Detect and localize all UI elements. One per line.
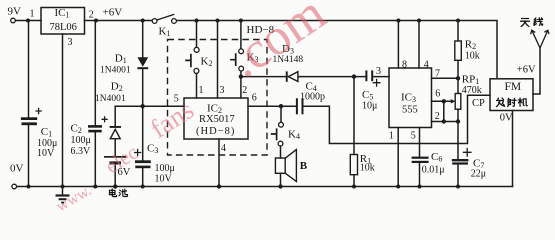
svg-text:RX5017: RX5017 <box>199 114 235 125</box>
terminal 0V input <box>12 184 17 189</box>
capacitor C2 polarity plus <box>102 116 108 122</box>
wire IC2 pin4 to 0V rail <box>218 139 220 187</box>
node dot C1/rail <box>26 19 30 23</box>
svg-text:100μ: 100μ <box>37 138 57 149</box>
wire D1 to node J1 <box>142 70 144 107</box>
svg-text:D1: D1 <box>115 53 127 66</box>
wire node J1 stub left and down to D2 <box>115 106 143 126</box>
wire rail to R2 <box>457 21 459 42</box>
wire antenna mast to FM box <box>533 48 540 94</box>
node dot C2/0V rail <box>93 185 97 189</box>
ground symbol <box>56 194 70 203</box>
svg-text:.com: .com <box>219 0 336 89</box>
wire D3 to C5 <box>298 76 366 78</box>
svg-text:1: 1 <box>389 130 394 141</box>
node dot pin7/R2/RP1 <box>456 76 460 80</box>
svg-text:9V: 9V <box>8 6 22 18</box>
node dot D3/R1/C5 <box>352 74 356 78</box>
svg-text:0V: 0V <box>10 163 24 175</box>
diode D1 1N4001 (filled, pointing down) <box>137 57 148 69</box>
wire IC3 pin2 tie to pin6 and RP1 bottom <box>432 101 459 121</box>
svg-text:1: 1 <box>30 9 35 20</box>
capacitor C7 22u plates <box>452 159 469 165</box>
wire C5 to IC3 pin3 <box>374 76 390 78</box>
svg-text:10μ: 10μ <box>362 101 377 112</box>
wire K3 node to D3 <box>241 76 287 78</box>
switch K1 <box>152 14 176 23</box>
wire D2 to battery <box>114 139 116 156</box>
svg-text:0.01μ: 0.01μ <box>422 165 445 176</box>
node dot IC3 pin8/rail <box>396 19 400 23</box>
wire C1 branch upper <box>28 21 30 118</box>
svg-text:3: 3 <box>376 66 381 77</box>
node dot speaker/0V rail <box>278 184 282 188</box>
wire +6V rail from K1 to right corner, down to FM box <box>176 21 497 79</box>
svg-text:10k: 10k <box>360 163 375 174</box>
dashed module enclosure HD-8 <box>168 40 268 156</box>
wire rail to K3 <box>240 21 242 49</box>
node dot RP1/C7 <box>456 119 460 123</box>
wire RP1 to C7 <box>457 109 459 159</box>
wire IC3 pin7 to R2/RP1 node <box>432 77 459 79</box>
svg-text:R2: R2 <box>465 39 476 52</box>
svg-text:1N4001: 1N4001 <box>95 94 126 104</box>
node dot K3/D3 <box>239 74 243 78</box>
antenna symbol <box>531 30 549 48</box>
capacitor C5 polarity plus <box>373 79 381 87</box>
wire K4 to speaker <box>280 146 282 158</box>
svg-text:(HD−8): (HD−8) <box>196 126 235 137</box>
capacitor C1 polarity plus <box>35 108 41 114</box>
svg-text:1: 1 <box>199 85 204 96</box>
wire IC2 pin5 from node J1 <box>143 105 184 107</box>
svg-text:2: 2 <box>435 111 440 122</box>
wire C1 branch lower <box>28 125 30 186</box>
timer IC3 555 box <box>389 68 432 128</box>
wire C2 branch upper <box>94 21 96 126</box>
capacitor C3 polarity plus <box>134 149 141 156</box>
node dot C3/0V rail <box>141 185 145 189</box>
node dot C1/0V rail <box>27 185 31 189</box>
svg-text:C2: C2 <box>71 123 82 136</box>
wire C2 branch lower <box>94 132 96 187</box>
wire K2 to IC2 pin1 <box>196 73 198 98</box>
svg-text:7: 7 <box>435 69 440 80</box>
svg-text:fans: fans <box>145 94 199 144</box>
svg-text:+6V: +6V <box>103 7 123 19</box>
wire C7 to 0V rail <box>457 164 459 186</box>
node J1 D1/D2/C3/pin5 <box>141 104 145 108</box>
svg-text:K2: K2 <box>201 56 213 69</box>
capacitor C3 plates <box>135 160 151 168</box>
capacitor C6 0.01u plates <box>412 157 429 163</box>
svg-text:IC1: IC1 <box>55 7 70 20</box>
wire node to K4 <box>280 106 282 122</box>
wire rail to K2 <box>196 21 198 48</box>
svg-text:C6: C6 <box>431 151 442 164</box>
node dot battery/0V rail <box>113 184 117 188</box>
resistor R2 10k <box>455 41 462 60</box>
potentiometer RP1 wiper arrow <box>451 99 456 103</box>
svg-text:CP: CP <box>472 98 485 109</box>
node dot R2/rail <box>456 19 460 23</box>
svg-text:K4: K4 <box>288 129 300 142</box>
svg-text:6: 6 <box>435 89 440 100</box>
diode D3 1N4148 (outline, pointing left) <box>286 71 298 81</box>
pushbutton K3 <box>230 49 243 71</box>
capacitor C1 plates <box>21 117 37 125</box>
node dot C7/0V rail <box>456 185 460 189</box>
pushbutton K4 <box>271 122 284 146</box>
svg-text:3: 3 <box>220 85 225 96</box>
IC2 RX5017 box <box>184 98 248 139</box>
node dot K2/rail <box>195 19 199 23</box>
svg-text:K1: K1 <box>159 26 171 39</box>
wire R2 to RP1 <box>457 60 459 93</box>
svg-text:8: 8 <box>402 59 407 70</box>
svg-text:10V: 10V <box>37 148 55 159</box>
FM transmitter box <box>490 79 533 111</box>
battery 6V plates <box>104 156 126 165</box>
svg-text:C3: C3 <box>147 143 158 156</box>
svg-text:10k: 10k <box>465 50 480 61</box>
speaker B <box>275 150 296 182</box>
potentiometer RP1 470k body <box>455 94 461 110</box>
wire K3 to IC2 pin2 <box>240 71 242 98</box>
svg-text:555: 555 <box>402 105 418 116</box>
svg-text:3: 3 <box>68 37 73 48</box>
svg-text:4: 4 <box>221 143 226 154</box>
wire R1 to 0V rail <box>353 175 355 187</box>
label FM transmitter chinese <box>496 98 527 107</box>
svg-text:elec: elec <box>101 140 142 178</box>
svg-text:100μ: 100μ <box>71 135 91 146</box>
svg-text:10V: 10V <box>155 173 173 184</box>
node dot K3/rail <box>239 19 243 23</box>
wire C3 branch upper <box>142 106 144 160</box>
node dot pin6/wiper tie <box>442 99 446 103</box>
capacitor C5 10u plates <box>365 70 373 81</box>
node dot D1/rail <box>141 19 145 23</box>
wire +6V rail from IC1 pin2 to K1 <box>85 20 153 22</box>
svg-text:5: 5 <box>411 130 416 141</box>
node dot IC3 pin4/rail <box>417 19 421 23</box>
svg-text:0V: 0V <box>500 112 513 123</box>
svg-text:2: 2 <box>242 85 247 96</box>
node dot IC3 pin1/0V rail <box>396 185 400 189</box>
node dot pin3/rail <box>216 19 220 23</box>
pushbutton K2 <box>185 47 199 73</box>
capacitor C7 polarity plus <box>463 148 472 157</box>
label antenna chinese <box>521 18 543 27</box>
wire D1 branch upper <box>142 21 144 58</box>
wire C6 to 0V rail <box>419 163 421 187</box>
capacitor C4 1000p plates <box>296 98 304 114</box>
node dot C2/rail <box>94 19 98 23</box>
node dot C6/0V rail <box>418 185 422 189</box>
node dot pin6/K4/C4 <box>279 104 283 108</box>
svg-text:B: B <box>300 160 308 172</box>
svg-text:1000p: 1000p <box>300 92 325 103</box>
wire C4 to FM CP input <box>304 95 491 143</box>
wire IC3 pin6 to RP1 wiper <box>432 100 453 102</box>
wire FM 0V pin down to rail <box>512 111 514 187</box>
watermark (decorative) <box>54 0 336 215</box>
regulator IC1 78L06 box <box>41 8 85 35</box>
wire node to R1 <box>353 77 355 155</box>
label battery chinese <box>109 189 127 197</box>
svg-text:6: 6 <box>252 93 257 104</box>
wire speaker to 0V rail <box>280 173 282 186</box>
wire ground stub <box>62 187 64 195</box>
svg-text:D2: D2 <box>111 81 123 94</box>
svg-text:78L06: 78L06 <box>50 22 77 33</box>
node dot R1/0V rail <box>352 185 356 189</box>
capacitor C2 plates <box>88 125 102 132</box>
wire rail to IC3 pin4 <box>418 21 420 69</box>
resistor R1 10k <box>350 155 357 175</box>
svg-text:1N4001: 1N4001 <box>100 65 131 75</box>
wire IC3 pin5 to C6 <box>419 128 421 157</box>
wire C3 branch lower <box>142 169 144 187</box>
svg-text:6.3V: 6.3V <box>71 146 92 157</box>
wire IC2 pin6 to K4/C4 node <box>248 105 296 107</box>
node dot gnd/0V rail <box>61 185 65 189</box>
terminal 9V input <box>11 18 16 23</box>
wire battery to 0V rail <box>114 164 116 186</box>
svg-text:FM: FM <box>505 81 522 93</box>
wire IC1 pin3 to ground rail <box>62 34 64 187</box>
node dot pin2 tie <box>442 119 446 123</box>
svg-text:+6V: +6V <box>517 65 536 76</box>
wire 0V bottom rail <box>17 186 513 188</box>
wire rail to IC3 pin8 <box>397 21 399 69</box>
svg-text:470k: 470k <box>462 85 482 96</box>
svg-text:2: 2 <box>89 10 94 21</box>
wire IC3 pin1 to 0V rail <box>397 128 399 187</box>
svg-text:100μ: 100μ <box>155 163 175 174</box>
svg-text:C1: C1 <box>41 126 52 139</box>
svg-text:C5: C5 <box>362 89 373 102</box>
wire 9V input to IC1 pin1 <box>15 20 41 22</box>
node dot IC2 pin4/0V rail <box>217 184 221 188</box>
svg-text:22μ: 22μ <box>471 169 486 180</box>
wire rail to IC2 pin3 <box>217 21 219 99</box>
diode D2 1N4001 (outline, pointing up) <box>110 126 121 139</box>
svg-text:IC3: IC3 <box>401 92 416 105</box>
svg-text:4: 4 <box>424 60 429 71</box>
